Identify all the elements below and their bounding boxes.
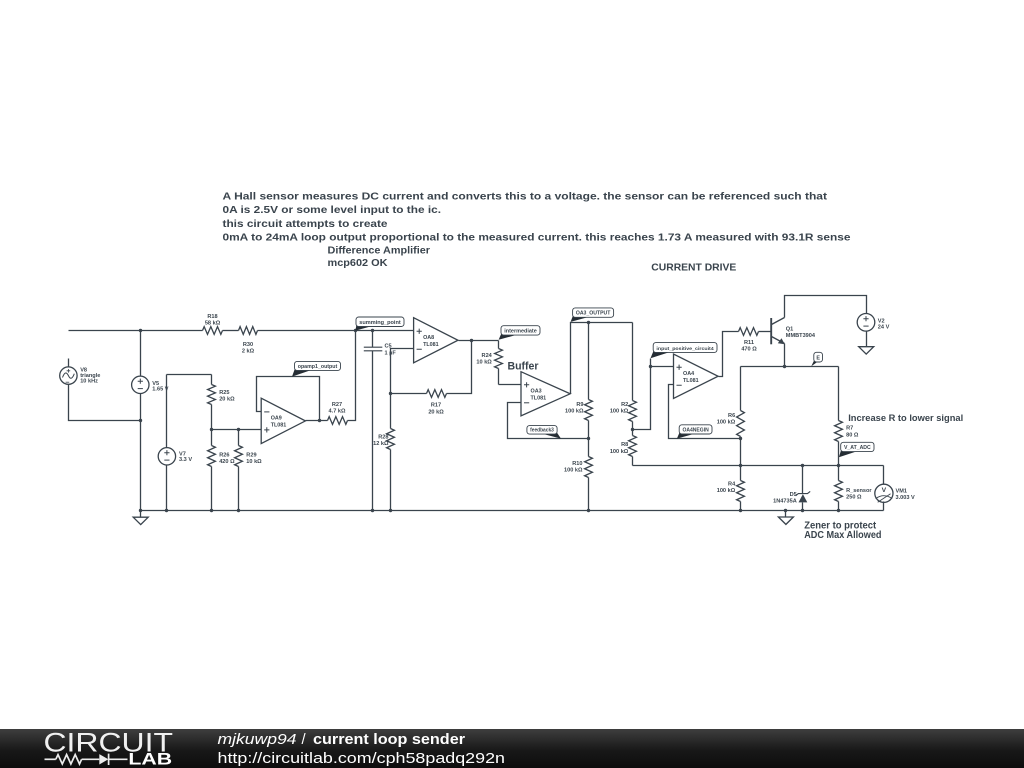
- resistor R24: [498, 341, 500, 349]
- footer bar: [0, 729, 1024, 768]
- wire V8 to V5 bottom node: [69, 385, 141, 421]
- wire R11 to Q1 base: [759, 331, 772, 333]
- op-amp OA9: [261, 398, 305, 443]
- resistor R17: [427, 390, 447, 398]
- capacitor C5: [372, 331, 374, 348]
- wire R24 to OA3 + input: [499, 384, 521, 386]
- resistor R18: [203, 327, 223, 335]
- resistor R26: [208, 446, 216, 467]
- junction dot R25 bottom: [210, 428, 213, 431]
- junction dot V8-V5 node: [139, 419, 142, 422]
- resistor R_sensor: [838, 466, 840, 481]
- source V5: [140, 331, 142, 377]
- voltmeter VM1: [883, 466, 885, 485]
- wire between R18 and R30: [223, 330, 239, 332]
- junction dot D5 top: [801, 464, 804, 467]
- transistor Q1 MMBT3904: [770, 318, 772, 344]
- wire OA4 - input feedback: [669, 385, 741, 439]
- junction dot R4 bottom: [739, 509, 742, 512]
- resistor R9: [588, 323, 590, 400]
- resistor R2: [632, 323, 634, 401]
- wire R30 to OA8 + input: [258, 330, 414, 332]
- net flag summing_point: [355, 325, 375, 331]
- net flag E: [811, 360, 819, 366]
- junction dot R17-R28 node: [389, 392, 392, 395]
- svg-text:mjkuwp94: mjkuwp94: [218, 732, 297, 748]
- svg-text:current loop sender: current loop sender: [313, 732, 465, 748]
- svg-text:http://circuitlab.com/cph58pad: http://circuitlab.com/cph58padq292n: [218, 751, 506, 767]
- junction dot R2 bottom: [631, 428, 634, 431]
- net flag OA4NEGIN: [677, 432, 698, 439]
- op-amp OA3: [521, 372, 570, 416]
- junction dot R6 bottom: [739, 464, 742, 467]
- net flag intermediate: [499, 333, 520, 340]
- resistor R28: [390, 394, 392, 429]
- junction dot R29 top: [237, 428, 240, 431]
- zener diode D5: [802, 466, 804, 494]
- junction dot R7 bottom: [837, 464, 840, 467]
- wire V7 to R25: [167, 374, 212, 376]
- wire R27 to summing node: [348, 331, 356, 421]
- ground symbol near D5: [785, 511, 787, 517]
- source V7: [166, 375, 168, 448]
- svg-text:/: /: [302, 732, 307, 748]
- junction dot R29 bottom: [237, 509, 240, 512]
- wire V2 to ground: [866, 332, 868, 347]
- wire V5 to ground rail: [140, 394, 142, 511]
- resistor R6: [740, 367, 742, 411]
- ground rail wire: [141, 510, 884, 512]
- resistor R7: [838, 367, 840, 421]
- wire R2 node to OA4 + input: [633, 359, 651, 430]
- wire OA9 output: [306, 420, 328, 422]
- resistor R8: [632, 430, 634, 436]
- junction dot C5 bottom: [371, 509, 374, 512]
- junction dot R26 bottom: [210, 509, 213, 512]
- wire divider to OA9 + input: [212, 429, 262, 431]
- net flag feedback3: [539, 432, 561, 439]
- junction dot R_sensor bottom: [837, 509, 840, 512]
- net flag OA3_OUTPUT: [571, 315, 592, 322]
- resistor R27: [328, 417, 348, 425]
- junction dot D5 bottom: [801, 509, 804, 512]
- junction dot summing node: [354, 329, 357, 332]
- ground symbol main: [140, 511, 142, 518]
- source V8 triangle: [68, 359, 70, 367]
- wire OA3 - input to feedback node: [508, 403, 589, 439]
- wire feedback via R17: [447, 341, 472, 394]
- source V2: [857, 314, 875, 332]
- resistor R30: [239, 327, 258, 335]
- wire R8 bottom net V_AT_ADC: [633, 465, 884, 467]
- CircuitLab logo resistor-diode glyph: [45, 754, 128, 765]
- resistor R4: [740, 466, 742, 481]
- net flag input_positive_circuit4: [651, 350, 673, 358]
- junction dot C5 top: [371, 329, 374, 332]
- wire OA4 output to R11: [719, 332, 739, 377]
- wire Q1 emitter net E: [741, 366, 839, 368]
- svg-text:LAB: LAB: [128, 751, 172, 768]
- op-amp OA8: [414, 318, 458, 363]
- junction dot feedback3 node: [587, 437, 590, 440]
- op-amp OA4: [674, 354, 719, 398]
- resistor R10: [588, 439, 590, 457]
- wire OA8 output: [459, 340, 499, 342]
- wire top summing net: [69, 330, 203, 332]
- resistor R29: [238, 430, 240, 446]
- wire OA8 - input: [391, 349, 414, 394]
- net flag opamp1_output: [292, 368, 314, 376]
- ground symbol V2: [859, 347, 874, 354]
- junction dot R9 top: [587, 321, 590, 324]
- junction dot R28 bottom: [389, 509, 392, 512]
- junction dot R6 OA4NEGIN: [739, 437, 742, 440]
- junction dot OA9 output: [318, 419, 321, 422]
- junction dot V5 top: [139, 329, 142, 332]
- net flag V_AT_ADC: [839, 450, 860, 458]
- wire OA9 feedback loop: [257, 377, 320, 421]
- wire OA3 output: [571, 323, 633, 394]
- junction dot Q1 emitter: [783, 365, 786, 368]
- junction dot R10 bottom: [587, 509, 590, 512]
- resistor R11: [739, 328, 759, 336]
- resistor R25: [211, 375, 213, 385]
- junction dot V7 bottom: [165, 509, 168, 512]
- junction dot OA8 feedback tap: [470, 339, 473, 342]
